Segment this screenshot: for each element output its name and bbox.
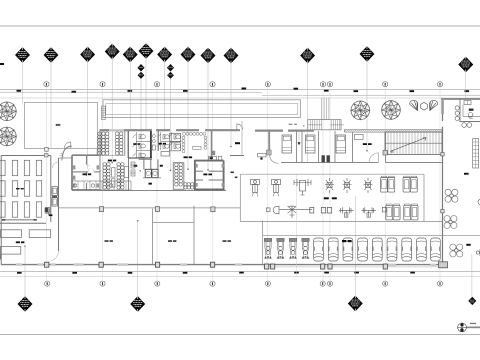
hall top wall columns (99, 207, 215, 212)
wall small dashes (289, 124, 298, 125)
gym cable machine A1 (325, 178, 334, 193)
cloakroom label (184, 156, 193, 158)
tree 1 (0, 102, 16, 121)
parking band outline (263, 221, 480, 265)
toilet (139, 153, 146, 157)
four-room block partitions (72, 156, 100, 190)
dorm beds (282, 135, 292, 153)
toilets column 1 (139, 135, 146, 139)
service rooms label (203, 174, 212, 176)
courtyard door (64, 142, 71, 149)
third wc stall column (169, 132, 182, 150)
chairs block divider wall (124, 131, 126, 156)
teacher desk corner (45, 208, 53, 216)
lower band outline (100, 131, 226, 191)
scooter (289, 238, 297, 258)
dining tables with chairs (103, 163, 124, 189)
canopy ladder strip (102, 106, 106, 120)
canopy inner rect (106, 104, 298, 115)
dorm wing top wall segments (255, 130, 442, 132)
gym treadmills row B (386, 204, 393, 220)
right wing east wall (442, 114, 444, 266)
courtyard to wing connector wall (96, 149, 98, 156)
black dash upper (464, 173, 469, 175)
treadmill (403, 176, 410, 192)
loungers (264, 238, 272, 258)
scooter (302, 238, 310, 258)
laundry floor line (143, 177, 161, 179)
bed (305, 135, 315, 153)
service rooms radiators (196, 164, 224, 187)
gym dumbbell 1 (339, 207, 354, 217)
sink pair (152, 135, 155, 151)
classroom desks rows (0, 160, 42, 217)
flower table 1 (445, 189, 458, 202)
stair wall column (383, 150, 387, 155)
gym squares (310, 207, 332, 213)
partition stub (241, 121, 243, 156)
treadmill (393, 204, 400, 220)
wing lower label (16, 241, 25, 243)
stair room door arc (369, 153, 379, 163)
kitchen counter strip (72, 181, 131, 190)
stair landing room label (363, 143, 372, 145)
leader arrowhead (297, 142, 300, 145)
room block radiators (73, 165, 99, 187)
car (358, 238, 368, 261)
bottom axis diamonds (18, 296, 477, 312)
bottom dimension text ticks (17, 272, 415, 274)
car (372, 238, 382, 261)
gym small box (382, 207, 386, 212)
laundry labels (134, 165, 163, 185)
entrance steps (60, 153, 64, 156)
site boundary line (0, 97, 443, 99)
tree 2 (0, 127, 16, 146)
east wall column (441, 210, 444, 213)
dorm wing bottom wall segments (281, 161, 442, 163)
main band top wall segments (100, 129, 241, 131)
dorm entry column (266, 150, 271, 155)
right wing top wall (441, 98, 480, 100)
gym machine row A item 1 (251, 180, 260, 197)
cloakroom scalloped hangers (182, 132, 207, 152)
classroom label (16, 188, 24, 189)
hall top wall (59, 207, 241, 209)
dorm wc dark stubs (322, 155, 330, 162)
left margin tick (0, 63, 4, 65)
bed (336, 135, 346, 153)
dorm side table (258, 154, 267, 157)
car (387, 238, 397, 261)
right ladder strip (473, 139, 479, 169)
top axis diamonds row (15, 43, 473, 78)
landing room window box (354, 134, 363, 139)
dorm entry door arc (270, 155, 279, 163)
axis diamond leader lines bottom (25, 196, 472, 298)
kitchen room top right (460, 99, 480, 121)
flower table 2 (444, 216, 457, 229)
courtyard bottom column (45, 148, 49, 152)
car (402, 238, 412, 261)
toilet (163, 135, 170, 139)
room block door leaves (87, 165, 95, 184)
laundry stalls (139, 159, 159, 169)
gym cable machine A3 (364, 178, 373, 193)
bottom wall columns (45, 262, 388, 269)
wing lower room tables (1, 230, 51, 254)
entry stair block (303, 120, 344, 130)
shell chairs (410, 100, 438, 110)
entrance door arc (51, 251, 58, 260)
gym cable machine A2 (343, 178, 352, 193)
fixtures above block (209, 156, 222, 160)
front line end tick (2, 219, 5, 221)
gym machine row B roller (266, 206, 279, 214)
left wing top wall column (45, 154, 49, 158)
gym dumbbell 2 (362, 207, 377, 217)
flower table 3 (450, 244, 463, 257)
cars (314, 238, 324, 261)
treadmill (411, 204, 418, 220)
upper stair riser lines (322, 98, 329, 120)
hall room labels (105, 240, 231, 242)
wc stall block walls (128, 131, 152, 158)
vestibule wall (59, 157, 73, 159)
washer drum (146, 171, 150, 175)
entrance vestibule curve (62, 146, 72, 161)
dorm entry wall (268, 131, 270, 151)
top border line (0, 25, 480, 27)
leader end dots (24, 146, 232, 247)
leader end dot (366, 150, 368, 152)
gym treadmills row A (381, 176, 388, 192)
fixture dark mark (210, 157, 213, 159)
room block label (83, 173, 92, 175)
bench dot (260, 157, 263, 160)
hall bottom exterior wall (1, 264, 443, 266)
gym black dashes (324, 197, 337, 199)
scale detail symbol (458, 323, 480, 332)
bottom grid bubble digits (47, 282, 441, 285)
stacked chairs block 1 (98, 132, 109, 155)
car (431, 238, 441, 261)
elevator / wc pair on wing right edge (52, 187, 57, 206)
dining tables (112, 167, 129, 188)
chair stack store (173, 163, 184, 190)
toilet (174, 144, 181, 148)
main staircase (385, 132, 442, 155)
gym room outline (240, 174, 443, 221)
scooter (277, 238, 285, 258)
bottom border line (0, 334, 480, 336)
auditorium label (108, 160, 116, 162)
car (343, 238, 353, 261)
wc sink counter (161, 152, 170, 157)
window ref leader (298, 131, 300, 142)
band interior partitions (211, 131, 213, 160)
third wc stall boxes (170, 134, 181, 151)
gym machine row A item 2 (272, 180, 281, 197)
right dashes (466, 244, 470, 246)
wc divider dark band (52, 196, 57, 198)
front line end tick (33, 219, 36, 221)
right wall column marks (441, 153, 444, 156)
dimension extension line (295, 174, 297, 276)
car black roof mark (342, 240, 352, 242)
dorm wing left short wall (230, 155, 244, 157)
gym bench B wide (280, 206, 313, 219)
gym bench press A (294, 179, 311, 195)
treadmill (388, 176, 395, 192)
washer boxes (145, 169, 158, 177)
stacked chairs block 2 (115, 132, 123, 155)
top grid bubble digits (46, 83, 441, 86)
canopy rectangle (103, 100, 301, 118)
washer drum (153, 171, 157, 175)
dorm partitions (297, 131, 386, 162)
left margin dark marks (0, 254, 1, 260)
treadmill (404, 204, 411, 220)
hall interior partitions (153, 206, 195, 265)
treadmill (410, 176, 417, 192)
courtyard rectangle (25, 102, 98, 148)
corner chairs (184, 183, 194, 190)
cloak wall column (211, 151, 215, 156)
toilet (174, 135, 181, 139)
bar stools (455, 106, 472, 127)
bottom grid bubbles (45, 281, 443, 286)
wc label 2 (159, 143, 166, 145)
storage room marks (231, 172, 238, 179)
east wall thick segment (441, 99, 444, 115)
classroom front line (2, 219, 37, 221)
left wing outline (0, 156, 59, 265)
bottom wall window pads (16, 263, 436, 266)
wc stall partitions and doors (133, 132, 151, 158)
bottom dimension band (0, 272, 480, 277)
hall corner column (45, 208, 50, 213)
tree 3 (351, 101, 370, 120)
service room partitions (195, 171, 224, 180)
tree 4 (382, 101, 401, 120)
hatched wall above main stair (345, 129, 443, 132)
side door arc (52, 162, 58, 168)
toilet (139, 144, 146, 148)
axis diamond leader lines top (23, 58, 466, 170)
kitchen sink (468, 113, 473, 118)
service rooms block (194, 161, 225, 190)
toilet (163, 144, 170, 148)
wc labels (133, 143, 140, 145)
small dot (140, 170, 141, 171)
bottom wall inner line (263, 266, 444, 268)
sink faucet (468, 117, 472, 119)
right small seat (476, 199, 480, 256)
chairs room bottom wall (98, 155, 125, 157)
heavy corner column (439, 262, 448, 268)
four-room block walls (72, 155, 100, 190)
second wc block (158, 131, 172, 151)
top dimension text ticks (17, 88, 470, 93)
door swing on band wall (237, 124, 243, 130)
lab fixtures (131, 162, 135, 176)
car (328, 238, 338, 261)
courtyard label (56, 124, 61, 126)
top dimension band (0, 90, 480, 96)
top grid bubbles (44, 82, 443, 87)
car (417, 238, 427, 261)
door opening gap (378, 161, 385, 163)
dorm dark dash (235, 142, 240, 144)
grid axis vertical lines (46, 88, 440, 281)
kitchen appliance (469, 109, 474, 111)
